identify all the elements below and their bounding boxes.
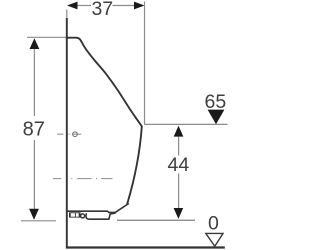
extension line stub left [66,10,68,19]
dimension 87 bottom extension line [21,220,56,222]
level 0 triangle marker [206,233,223,246]
water inlet circle symbol [73,132,78,137]
dimension 44 line lower segment [178,174,180,209]
trap tray outline [86,213,116,219]
extension line right (front edge) [144,2,146,125]
dimension 87 down arrow [29,209,39,220]
svg-text:65: 65 [205,91,227,113]
flush connection box right slot [76,213,79,217]
floor line [66,246,225,248]
dimension 44 line upper segment [178,137,180,156]
dimension 37 line left segment [77,5,91,7]
dimension 37 line right segment [113,5,135,7]
dimension 87 top extension line [27,36,66,38]
urinal back wall line [66,18,68,248]
flush connection box [69,212,81,217]
flush connection box left slot [71,213,75,217]
svg-text:37: 37 [91,0,113,20]
bowl underside diagonal [67,203,129,212]
level 65 reference line [145,123,228,125]
dimension 87 line upper segment [33,49,35,117]
dimension 44 down arrow [174,208,184,219]
svg-text:0: 0 [208,212,219,234]
level 65 triangle marker [208,110,225,125]
level 21 reference line [117,219,195,221]
dimension 87 line lower segment [33,140,35,209]
dimension 37 right arrow [134,2,145,10]
dimension 87 up arrow [30,38,40,49]
dimension 37 left arrow [67,2,78,10]
urinal top edge and front profile [66,38,142,205]
dimension 44 up arrow [174,126,184,137]
water inlet dash-dot axis [57,133,81,135]
svg-text:44: 44 [168,154,190,176]
outlet dash-dot centerline [53,178,112,180]
svg-text:87: 87 [23,119,45,141]
outlet circle [81,214,85,218]
